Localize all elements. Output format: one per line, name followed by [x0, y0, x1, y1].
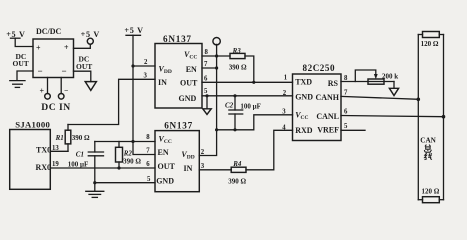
wire terminal to DC/DC: [74, 44, 91, 48]
wire isolated GND rail (U2 pin5 to 82C250 pin2): [202, 95, 293, 97]
capacitor C2 100uF: [225, 94, 261, 131]
resistor 120ohm (bottom terminator): [418, 187, 443, 202]
svg-text:−: −: [64, 86, 68, 95]
svg-text:7: 7: [204, 61, 208, 68]
svg-text:EN: EN: [158, 148, 169, 157]
potentiometer 200k on RS: [341, 70, 398, 84]
svg-text:1: 1: [284, 75, 288, 82]
svg-text:2: 2: [144, 59, 148, 66]
wire CANH to bus: [341, 96, 418, 99]
wire DC/DC right to isolated ground: [74, 71, 91, 81]
svg-text:OUT: OUT: [180, 79, 198, 88]
resistor R1 390ohm: [55, 125, 90, 152]
svg-text:R4: R4: [232, 160, 242, 168]
svg-text:R3: R3: [232, 47, 242, 55]
wire +5V rail to U3 EN: [133, 35, 155, 154]
wire TX0 to R1: [50, 150, 68, 152]
wire R3 to OUT line: [245, 56, 254, 82]
svg-text:GND: GND: [295, 93, 313, 102]
svg-text:TX0: TX0: [36, 146, 51, 155]
wire opto U2 pin 2: [133, 65, 155, 67]
svg-text:6N137: 6N137: [163, 34, 192, 44]
svg-text:390 Ω: 390 Ω: [228, 178, 246, 186]
IC 82C250: [282, 63, 348, 141]
svg-text:390 Ω: 390 Ω: [229, 63, 247, 71]
svg-text:6N137: 6N137: [164, 121, 193, 131]
label CAN bus: [420, 136, 436, 159]
wire DC/DC left to ground: [17, 71, 33, 80]
svg-text:+: +: [40, 87, 45, 96]
junction node (133,141.5): [131, 140, 134, 143]
svg-text:CANL: CANL: [316, 112, 339, 121]
svg-text:8: 8: [146, 134, 150, 141]
svg-text:120 Ω: 120 Ω: [422, 187, 440, 195]
wire isolated Vcc rail to 82C250 pin 3: [217, 115, 293, 130]
svg-text:3: 3: [144, 72, 148, 79]
svg-text:TXD: TXD: [295, 78, 312, 87]
ground (earth, DC/DC left): [10, 81, 25, 88]
ground (isolated, GND rail): [203, 94, 211, 114]
wire CANL to bus: [341, 116, 444, 117]
wire U3 GND pin 5: [95, 182, 155, 184]
IC SJA1000: [10, 120, 60, 190]
terminal DC IN -: [58, 78, 68, 100]
ground (earth, C1/U3 GND): [86, 183, 104, 198]
svg-text:IN: IN: [158, 78, 167, 87]
svg-text:120 Ω: 120 Ω: [421, 40, 439, 48]
junction node (133,66): [131, 64, 134, 67]
svg-text:100 μF: 100 μF: [240, 102, 261, 110]
wire RXD to R4: [246, 130, 293, 170]
junction node (216.6,56): [215, 54, 218, 57]
wire R1 to opto U2 pin 3: [68, 79, 155, 124]
resistor R3 390ohm: [229, 47, 247, 71]
svg-text:390 Ω: 390 Ω: [123, 158, 141, 166]
DC/DC converter: [33, 27, 74, 78]
svg-text:+5 V: +5 V: [6, 30, 25, 39]
junction node (253.8,82.3): [252, 81, 255, 84]
svg-text:OUT: OUT: [158, 162, 176, 171]
junction node (94.8,182.7): [93, 181, 96, 184]
svg-text:SJA1000: SJA1000: [15, 120, 50, 130]
svg-text:8: 8: [205, 49, 209, 56]
hanzi zong: [424, 145, 431, 153]
terminal +5V (DC/DC right): [87, 38, 93, 44]
svg-text:5: 5: [344, 123, 348, 130]
junction node CANH bus: [417, 98, 421, 102]
wire U2 pin 7 EN: [202, 67, 217, 69]
svg-text:OUT: OUT: [13, 59, 29, 68]
svg-text:GND: GND: [179, 94, 197, 103]
wire isolated +5V vertical to U3 pin 2: [199, 44, 216, 155]
svg-text:3: 3: [201, 163, 205, 170]
resistor R4 390ohm: [228, 160, 246, 185]
svg-text:5: 5: [147, 176, 151, 183]
svg-text:OUT: OUT: [76, 62, 92, 71]
ground (isolated, DC/DC right): [85, 82, 96, 91]
hanzi xian: [425, 153, 432, 160]
svg-text:200 k: 200 k: [382, 72, 398, 80]
svg-text:C2: C2: [225, 101, 234, 109]
svg-text:+5 V: +5 V: [124, 26, 143, 35]
svg-text:R2: R2: [123, 150, 133, 158]
svg-text:VCC: VCC: [295, 111, 308, 122]
power label +5V (DC/DC left): [6, 30, 25, 39]
svg-text:2: 2: [201, 149, 205, 156]
svg-text:6: 6: [204, 75, 208, 82]
optocoupler U2 6N137 (top): [144, 34, 209, 108]
svg-text:RS: RS: [328, 79, 339, 88]
wire U2 pin 8 Vcc: [202, 55, 230, 57]
wire +5V to DC/DC: [15, 38, 33, 46]
svg-text:DC/DC: DC/DC: [36, 27, 62, 36]
svg-text:CAN: CAN: [420, 136, 436, 144]
label DC OUT (left): [13, 52, 29, 68]
svg-text:6: 6: [146, 161, 150, 168]
svg-text:VREF: VREF: [317, 126, 339, 135]
svg-text:RX0: RX0: [36, 163, 52, 172]
ground (RS pot): [389, 82, 398, 96]
svg-text:100 μF: 100 μF: [68, 161, 89, 169]
svg-text:IN: IN: [184, 164, 193, 173]
label DC OUT (right): [76, 55, 92, 71]
junction node CANL bus: [442, 115, 446, 119]
svg-text:6: 6: [344, 108, 348, 115]
svg-text:R1: R1: [55, 134, 64, 142]
svg-text:+5 V: +5 V: [81, 30, 100, 39]
power label +5V (opto U2): [124, 26, 143, 35]
resistor 120ohm (top terminator): [418, 32, 443, 49]
junction node (216.6,129.8): [215, 128, 218, 131]
svg-text:+: +: [64, 43, 69, 52]
svg-text:EN: EN: [186, 65, 197, 74]
svg-text:VDD: VDD: [181, 150, 194, 161]
svg-text:5: 5: [204, 88, 208, 95]
svg-text:82C250: 82C250: [303, 63, 336, 73]
svg-text:−: −: [38, 66, 43, 76]
svg-text:19: 19: [52, 161, 59, 168]
svg-text:VCC: VCC: [159, 134, 172, 145]
junction node (216.6,68): [215, 66, 218, 69]
resistor R2 390ohm: [116, 142, 142, 170]
svg-text:3: 3: [282, 109, 286, 116]
svg-text:7: 7: [146, 147, 150, 154]
bus line CANL vertical: [443, 35, 445, 200]
svg-text:2: 2: [283, 90, 287, 97]
svg-text:VDD: VDD: [159, 64, 172, 75]
optocoupler U3 6N137 (bottom): [146, 121, 205, 192]
svg-text:390 Ω: 390 Ω: [72, 134, 90, 142]
svg-text:−: −: [62, 66, 67, 76]
wire RX0 (SJA1000 to U3 OUT): [50, 167, 155, 169]
svg-text:VCC: VCC: [184, 50, 197, 61]
wire Vcc rail (C1/R2 to U3 pin 8): [95, 141, 155, 143]
terminal DC IN +: [40, 78, 51, 100]
svg-text:C1: C1: [76, 151, 84, 159]
wire VREF stub: [341, 129, 365, 131]
svg-text:+: +: [36, 44, 41, 53]
wire R4 to U3 pin 3: [199, 169, 231, 171]
svg-text:GND: GND: [156, 177, 174, 186]
capacitor C1 100uF: [68, 142, 104, 183]
terminal +5V isolated: [213, 38, 220, 45]
svg-text:RXD: RXD: [295, 126, 313, 135]
bus line CANH vertical: [417, 35, 419, 200]
svg-text:CANH: CANH: [315, 93, 339, 102]
svg-text:DC IN: DC IN: [41, 102, 70, 113]
wire U2 OUT to 82C250 TXD: [202, 81, 293, 83]
svg-text:7: 7: [344, 90, 348, 97]
